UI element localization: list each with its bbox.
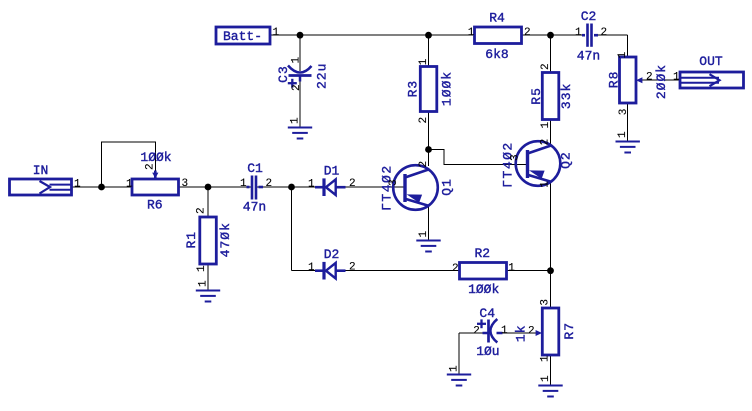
svg-text:2: 2: [540, 139, 552, 146]
svg-text:ГТ4Ø2: ГТ4Ø2: [501, 141, 516, 188]
svg-text:2: 2: [266, 178, 273, 190]
svg-text:2: 2: [646, 72, 653, 84]
svg-text:1: 1: [308, 178, 315, 190]
svg-text:OUT: OUT: [699, 54, 723, 69]
svg-text:1: 1: [273, 27, 280, 39]
svg-text:1k: 1k: [514, 324, 529, 342]
svg-text:3: 3: [388, 179, 400, 186]
svg-text:6k8: 6k8: [485, 47, 508, 62]
svg-text:1ØØk: 1ØØk: [140, 150, 171, 165]
svg-text:3: 3: [618, 109, 630, 116]
svg-text:1: 1: [418, 231, 430, 238]
svg-text:1: 1: [540, 355, 552, 362]
svg-text:R7: R7: [562, 322, 577, 340]
svg-text:C4: C4: [479, 306, 495, 321]
svg-text:1: 1: [290, 117, 302, 124]
svg-text:R4: R4: [489, 10, 505, 25]
svg-text:D2: D2: [324, 247, 340, 262]
svg-text:2: 2: [196, 207, 208, 214]
svg-text:47Øk: 47Øk: [218, 222, 233, 257]
svg-text:1ØØk: 1ØØk: [440, 71, 455, 106]
svg-text:1ØØk: 1ØØk: [468, 282, 499, 297]
svg-text:R2: R2: [474, 246, 490, 261]
svg-text:1: 1: [468, 27, 475, 39]
svg-text:1: 1: [449, 365, 461, 372]
svg-text:1: 1: [240, 178, 247, 190]
svg-text:2: 2: [528, 326, 535, 338]
svg-text:3: 3: [510, 154, 522, 161]
svg-text:3: 3: [540, 299, 552, 306]
svg-text:1: 1: [617, 51, 629, 58]
svg-text:1: 1: [501, 325, 508, 337]
svg-text:1: 1: [290, 57, 302, 64]
svg-text:22u: 22u: [315, 63, 330, 89]
svg-text:1: 1: [126, 178, 133, 190]
svg-text:R5: R5: [529, 87, 544, 105]
svg-text:Q1: Q1: [439, 178, 454, 196]
svg-text:D1: D1: [324, 164, 340, 179]
svg-text:1: 1: [196, 265, 208, 272]
svg-text:1: 1: [198, 280, 210, 287]
svg-text:2: 2: [601, 27, 608, 39]
svg-text:2: 2: [473, 326, 480, 338]
svg-text:1: 1: [308, 262, 315, 274]
svg-text:1: 1: [575, 27, 582, 39]
svg-text:C2: C2: [581, 9, 597, 24]
svg-text:Q2: Q2: [558, 151, 573, 169]
svg-text:R1: R1: [184, 231, 199, 249]
svg-text:IN: IN: [33, 163, 49, 178]
svg-text:1: 1: [508, 262, 515, 274]
svg-text:1: 1: [540, 181, 552, 188]
svg-text:2: 2: [418, 117, 430, 124]
svg-text:C3: C3: [276, 65, 291, 83]
svg-text:2: 2: [524, 27, 531, 39]
svg-text:ГТ4Ø2: ГТ4Ø2: [379, 164, 394, 211]
svg-text:3: 3: [182, 178, 189, 190]
svg-text:2: 2: [145, 163, 157, 170]
svg-text:C1: C1: [247, 161, 263, 176]
svg-text:1: 1: [617, 131, 629, 138]
svg-text:2ØØk: 2ØØk: [654, 64, 669, 99]
svg-text:R6: R6: [147, 198, 163, 213]
svg-text:2: 2: [452, 263, 459, 275]
svg-text:R3: R3: [406, 80, 421, 98]
svg-text:47n: 47n: [243, 200, 266, 215]
svg-text:1: 1: [74, 179, 81, 191]
svg-text:1: 1: [673, 71, 680, 83]
svg-text:1: 1: [418, 58, 430, 65]
svg-text:2: 2: [349, 178, 356, 190]
svg-text:1Øu: 1Øu: [476, 344, 499, 359]
svg-text:Batt-: Batt-: [223, 29, 262, 44]
svg-text:2: 2: [291, 84, 303, 91]
svg-text:2: 2: [349, 261, 356, 273]
svg-text:R8: R8: [606, 71, 621, 89]
svg-text:2: 2: [418, 161, 430, 168]
svg-text:1: 1: [540, 122, 552, 129]
svg-text:1: 1: [540, 375, 552, 382]
svg-text:2: 2: [540, 63, 552, 70]
svg-text:33k: 33k: [559, 83, 574, 109]
svg-text:47n: 47n: [577, 48, 600, 63]
